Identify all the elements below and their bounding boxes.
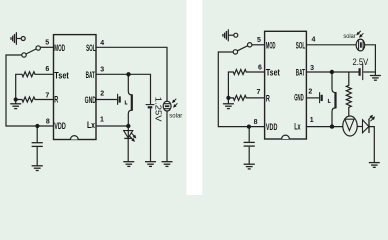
svg-text:R: R (266, 93, 270, 104)
svg-text:VDD: VDD (266, 122, 278, 133)
svg-text:GND: GND (85, 95, 96, 106)
svg-text:5: 5 (45, 40, 49, 47)
svg-text:1: 1 (310, 117, 314, 124)
svg-text:Tset: Tset (266, 68, 281, 79)
svg-text:2.5V: 2.5V (353, 57, 369, 67)
svg-text:SOL: SOL (86, 43, 96, 54)
svg-text:7: 7 (257, 89, 261, 96)
svg-text:Tset: Tset (54, 70, 69, 81)
svg-text:solar: solar (169, 113, 182, 119)
svg-text:1.25V: 1.25V (153, 97, 162, 123)
svg-text:6: 6 (258, 65, 262, 72)
svg-text:3: 3 (310, 65, 314, 72)
svg-text:1: 1 (100, 117, 104, 124)
svg-text:SOL: SOL (296, 41, 306, 52)
svg-text:MOD: MOD (266, 40, 276, 51)
svg-text:2: 2 (308, 89, 312, 96)
svg-text:GND: GND (294, 92, 304, 103)
svg-text:4: 4 (100, 40, 104, 47)
svg-text:4: 4 (312, 36, 316, 43)
svg-text:Lx: Lx (87, 120, 96, 131)
svg-text:8: 8 (46, 118, 50, 125)
svg-text:5: 5 (257, 37, 261, 44)
svg-text:8: 8 (254, 119, 258, 126)
svg-text:2: 2 (100, 91, 104, 98)
svg-text:3: 3 (100, 67, 104, 74)
svg-text:BAT: BAT (296, 68, 305, 79)
svg-text:6: 6 (45, 66, 49, 73)
svg-text:MOD: MOD (54, 43, 65, 54)
svg-text:VDD: VDD (54, 121, 66, 132)
svg-text:BAT: BAT (86, 70, 95, 81)
svg-text:solar: solar (343, 34, 355, 40)
svg-text:R: R (54, 95, 58, 106)
svg-text:Lx: Lx (294, 121, 301, 132)
svg-text:7: 7 (45, 93, 49, 100)
